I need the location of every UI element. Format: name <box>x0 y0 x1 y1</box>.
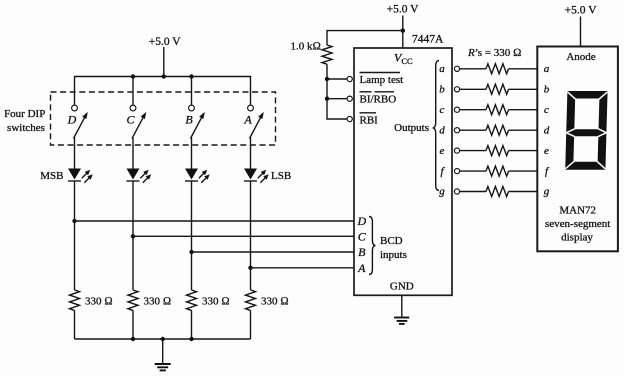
svg-text:B: B <box>358 245 366 259</box>
wire LED2 to resistor R2 <box>132 181 134 290</box>
svg-text:seven-segment: seven-segment <box>545 218 610 230</box>
wire switch D to LED1 <box>74 138 76 169</box>
switch S-A (DIP section A) <box>248 105 264 138</box>
seven-segment digit 8 (all segments lit) <box>565 91 607 170</box>
svg-text:D: D <box>67 113 77 127</box>
switch S-B (DIP section B) <box>189 105 205 138</box>
wire output c / resistor R8 / wire to display c <box>459 105 537 115</box>
svg-text:B: B <box>185 113 193 127</box>
label RBI with overline <box>360 113 379 127</box>
wire bottom ground rail <box>75 338 251 340</box>
svg-text:Lamp test: Lamp test <box>360 74 404 86</box>
svg-text:MAN72: MAN72 <box>559 205 596 217</box>
wire R1 to bottom rail <box>74 310 76 339</box>
svg-text:switches: switches <box>7 122 45 134</box>
wire 1.0k resistor down to RBI elbow <box>327 64 347 119</box>
wire R2 to bottom rail <box>132 310 134 339</box>
svg-text:Four DIP: Four DIP <box>4 108 45 120</box>
svg-text:+5.0 V: +5.0 V <box>387 4 420 16</box>
svg-text:D: D <box>356 214 366 228</box>
pin bubble output c <box>454 107 459 112</box>
svg-text:display: display <box>561 232 593 244</box>
wire switch A to LED4 <box>250 138 252 169</box>
junction dot bottom rail at R3 <box>189 337 193 341</box>
brace BCD inputs <box>369 217 376 275</box>
svg-text:MSB: MSB <box>40 170 63 182</box>
junction dot rail at C <box>131 74 135 78</box>
junction dot at Lamp test row <box>325 77 329 81</box>
svg-text:LSB: LSB <box>271 170 291 182</box>
LED D2 <box>127 169 152 183</box>
wire output f / resistor R11 / wire to display f <box>459 166 537 176</box>
svg-text:e: e <box>544 145 549 157</box>
svg-text:b: b <box>439 84 445 96</box>
label Lamp test with overline <box>360 73 404 87</box>
svg-text:7447A: 7447A <box>412 34 444 46</box>
pin bubble RBI <box>347 116 352 121</box>
svg-text:C: C <box>358 230 367 244</box>
svg-text:BI/RBO: BI/RBO <box>360 94 397 106</box>
label BI/RBO with overlines <box>360 92 397 106</box>
svg-text:330 Ω: 330 Ω <box>85 296 113 308</box>
svg-text:g: g <box>544 186 550 198</box>
junction dot bottom rail at ground stub <box>161 337 165 341</box>
ground symbol (left) <box>155 364 171 370</box>
resistor R2 330 ohm <box>128 290 138 310</box>
wire GND pin to ground <box>401 295 403 317</box>
svg-text:c: c <box>544 104 549 116</box>
svg-text:BCD: BCD <box>380 235 403 247</box>
wire output b / resistor R7 / wire to display b <box>459 84 537 94</box>
wire +5V stem to top rail <box>163 47 165 77</box>
svg-text:d: d <box>439 124 445 136</box>
svg-text:inputs: inputs <box>380 249 407 261</box>
junction dot node D <box>72 219 76 223</box>
junction dot rail at B <box>189 74 193 78</box>
wire switch C to LED2 <box>132 138 134 169</box>
junction dot node C <box>131 234 135 238</box>
pin bubble BI/RBO <box>347 96 352 101</box>
svg-text:d: d <box>544 124 550 136</box>
wire node D to 7447A input D <box>75 220 355 222</box>
wire R4 to bottom rail <box>250 310 252 339</box>
LED D3 <box>185 169 210 183</box>
svg-text:R’s = 330 Ω: R’s = 330 Ω <box>467 47 521 59</box>
DIP switch dashed enclosure <box>51 92 276 145</box>
svg-text:C: C <box>126 113 135 127</box>
pin bubble output e <box>454 148 459 153</box>
wire LED1 to resistor R1 <box>74 181 76 290</box>
wire switch B to LED3 <box>191 138 193 169</box>
junction dot node A <box>248 266 252 270</box>
wire LED3 to resistor R3 <box>191 181 193 290</box>
svg-text:g: g <box>439 186 445 198</box>
svg-text:b: b <box>544 84 550 96</box>
switch S-C (DIP section C) <box>130 105 146 138</box>
resistor R4 330 ohm <box>246 290 256 310</box>
svg-text:RBI: RBI <box>360 114 379 126</box>
label BCD inputs <box>380 235 407 261</box>
wire node A to 7447A input A <box>251 267 355 269</box>
pin bubble output g <box>454 189 459 194</box>
svg-text:+5.0 V: +5.0 V <box>149 36 182 48</box>
wire switch B stub from rail <box>191 77 193 106</box>
wire branch to 1.0k resistor <box>327 31 403 45</box>
svg-text:1.0 kΩ: 1.0 kΩ <box>291 41 321 53</box>
svg-text:330 Ω: 330 Ω <box>202 296 230 308</box>
LED D1 (MSB) <box>68 169 93 183</box>
LED D4 (LSB) <box>244 169 269 183</box>
wire output e / resistor R10 / wire to display e <box>459 146 537 156</box>
resistor R3 330 ohm <box>187 290 197 310</box>
ground symbol (7447A) <box>394 318 409 324</box>
wire LED4 to resistor R4 <box>250 181 252 290</box>
wire ground stub <box>162 339 164 364</box>
wire top supply rail <box>75 77 251 106</box>
svg-text:c: c <box>440 104 445 116</box>
svg-text:GND: GND <box>390 280 414 292</box>
svg-text:Outputs: Outputs <box>394 122 429 134</box>
brace outputs a-g <box>433 61 439 191</box>
svg-text:330 Ω: 330 Ω <box>261 296 289 308</box>
junction dot bottom rail at R2 <box>131 337 135 341</box>
wire output a / resistor R6 / wire to display a <box>459 64 537 74</box>
pin bubble output d <box>454 128 459 133</box>
svg-text:A: A <box>357 261 366 275</box>
wire switch C stub from rail <box>132 77 134 106</box>
resistor R1 330 ohm <box>70 290 80 310</box>
junction dot node B <box>189 250 193 254</box>
svg-text:Anode: Anode <box>566 51 595 63</box>
svg-text:a: a <box>439 63 445 75</box>
pin bubble output a <box>454 66 459 71</box>
wire node B to 7447A input B <box>192 251 355 253</box>
svg-text:e: e <box>440 145 445 157</box>
switch S-D (DIP section D) <box>72 105 88 138</box>
pin bubble output b <box>454 87 459 92</box>
display DS1 MAN72 box <box>537 47 618 252</box>
svg-text:+5.0 V: +5.0 V <box>565 5 598 17</box>
svg-text:a: a <box>544 63 550 75</box>
junction dot at BI/RBO row <box>325 97 329 101</box>
junction dot VCC branch <box>401 28 405 32</box>
junction dot rail at +5V stem <box>162 74 166 78</box>
wire +5V stem to VCC pin <box>402 16 404 49</box>
wire output d / resistor R9 / wire to display d <box>459 125 537 135</box>
label MAN72 seven-segment display <box>545 205 610 244</box>
wire node C to 7447A input C <box>133 235 354 237</box>
wire output g / resistor R12 / wire to display g <box>459 187 537 197</box>
pin bubble output f <box>454 169 459 174</box>
wire stub to BI/RBO pin <box>327 98 347 100</box>
label Four DIP switches <box>4 108 45 134</box>
wire R3 to bottom rail <box>191 310 193 339</box>
resistor R5 1.0 kilohm <box>322 45 332 64</box>
wire +5V stem to anode <box>580 17 582 47</box>
svg-text:330 Ω: 330 Ω <box>144 296 172 308</box>
svg-text:A: A <box>243 113 252 127</box>
op-amp U1 7447A decoder box <box>354 48 452 295</box>
wire stub to Lamp test pin <box>327 78 347 80</box>
pin bubble Lamp test <box>347 76 352 81</box>
